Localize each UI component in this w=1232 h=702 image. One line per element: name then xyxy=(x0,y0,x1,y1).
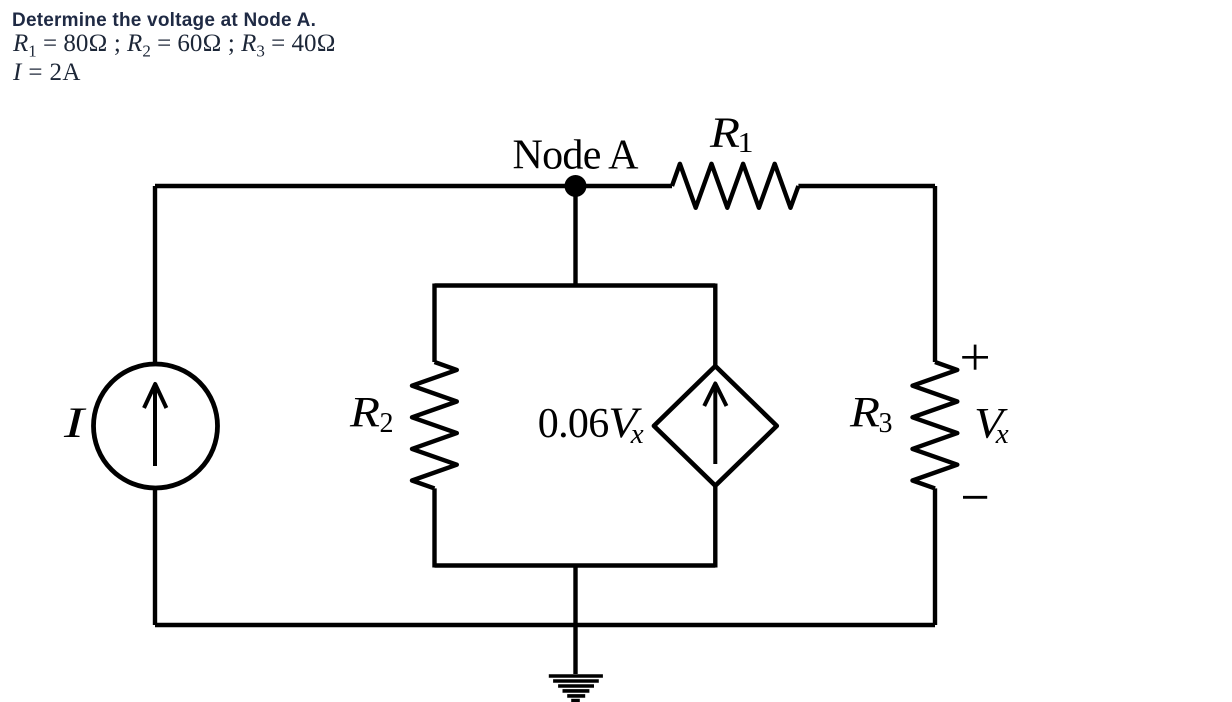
resistor R1 xyxy=(672,164,798,208)
ground symbol xyxy=(549,676,603,701)
label: plus sign xyxy=(962,345,988,370)
wire: top rail from Node A to R1 xyxy=(575,184,672,188)
node A junction dot xyxy=(565,175,587,197)
svg-text:R: R xyxy=(849,390,880,437)
svg-text:R: R xyxy=(349,390,380,437)
label: minus sign xyxy=(963,496,987,499)
value label I xyxy=(13,59,81,87)
wire: left rail bottom segment xyxy=(153,488,157,625)
label: Node A xyxy=(513,132,640,178)
resistor R2 xyxy=(412,362,457,488)
wire: right rail bottom segment xyxy=(933,488,937,625)
wire: left rail top segment xyxy=(153,186,157,364)
svg-text:2: 2 xyxy=(380,408,394,439)
svg-text:3: 3 xyxy=(879,408,893,439)
wire: inner box bottom edge xyxy=(435,563,716,567)
dependent source arrow xyxy=(704,384,726,465)
label: 0.06Vx xyxy=(538,400,644,450)
wire: inner box top edge xyxy=(435,283,716,287)
svg-text:I: I xyxy=(63,400,87,447)
wire: top rail from left rail to Node A xyxy=(155,184,575,188)
wire: inner box bottom to ground xyxy=(573,566,577,675)
resistor R3 xyxy=(913,362,958,488)
wire: top rail from R1 to right rail xyxy=(798,184,935,188)
svg-text:R: R xyxy=(709,110,740,157)
label: R3 xyxy=(849,390,893,439)
svg-text:Node A: Node A xyxy=(513,132,640,178)
label: R2 xyxy=(349,390,394,439)
wire: Node A to inner box top xyxy=(573,186,577,286)
wire: inner box left edge upper xyxy=(432,284,436,363)
wire: bottom rail xyxy=(155,623,935,627)
label: R1 xyxy=(709,110,754,159)
svg-text:1: 1 xyxy=(738,128,754,159)
svg-text:x: x xyxy=(995,418,1009,450)
svg-text:0.06: 0.06 xyxy=(538,401,609,447)
label: Vx (voltage across R3) xyxy=(974,400,1009,450)
label: I xyxy=(63,400,87,447)
wire: inner box left edge lower xyxy=(432,488,436,567)
problem title xyxy=(12,10,316,32)
value labels R1 R2 R3 xyxy=(13,30,336,58)
current source I (circle) xyxy=(94,364,218,488)
svg-text:x: x xyxy=(630,418,644,450)
current source I arrow xyxy=(144,384,166,466)
dependent source 0.06Vx (diamond) xyxy=(654,366,777,486)
wire: right rail top segment xyxy=(933,186,937,362)
wire: inner box right edge lower xyxy=(713,486,717,568)
wire: inner box right edge upper xyxy=(713,284,717,367)
